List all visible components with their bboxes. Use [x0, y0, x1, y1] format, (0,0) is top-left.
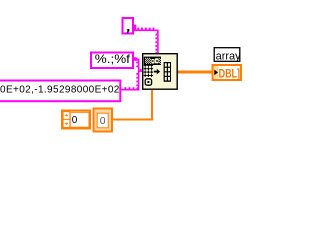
string wire: vertical junction segment [136, 59, 139, 91]
array grid (2x4) [164, 62, 171, 82]
label "array" [214, 48, 241, 63]
svg-text:0: 0 [72, 115, 78, 126]
svg-text:DBL]: DBL] [219, 69, 240, 81]
orange array wire: icon output to indicator [177, 71, 212, 74]
numeric constant 0 (with increment/decrement buttons) [62, 111, 90, 129]
token symbol (rounded square with dot) [145, 79, 151, 85]
string constant "," (delimiter) [123, 18, 134, 34]
orange wire: numeric constant to icon bottom [113, 90, 152, 120]
svg-text:0E+02,-1.95298000E+02: 0E+02,-1.95298000E+02 [0, 84, 120, 95]
format pattern box (black with dithered %.3f) [144, 57, 161, 65]
string wire: comma constant to icon top [134, 25, 159, 54]
numeric constant 0 (active/selected) [94, 109, 113, 132]
svg-text:0: 0 [100, 115, 106, 127]
indicator terminal: array of DBL [213, 65, 242, 81]
arrow [154, 71, 157, 73]
string wire: stub into icon left [138, 69, 143, 72]
string constant "%.;%f" (format string) [91, 53, 133, 69]
svg-text:%.;%f: %.;%f [95, 53, 131, 66]
plus-sign grid (spreadsheet string) [144, 64, 153, 77]
string wire: format string stub [134, 57, 140, 61]
string wire: input string stub [121, 87, 139, 90]
svg-text:array: array [216, 50, 242, 62]
function icon: Spreadsheet String To Array [143, 54, 178, 89]
string constant "0E+02,-1.95298000E+02" (input string, clipped at left) [0, 81, 120, 102]
